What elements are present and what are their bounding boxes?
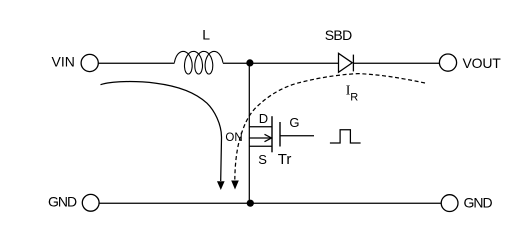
label VIN xyxy=(52,53,75,69)
svg-text:ON: ON xyxy=(225,132,242,144)
label ON xyxy=(225,132,242,144)
svg-text:GND: GND xyxy=(48,193,77,209)
wire SBD cathode to VOUT xyxy=(353,62,439,64)
label S (source pin) xyxy=(258,152,267,167)
svg-text:S: S xyxy=(258,152,267,167)
wire L to node A xyxy=(223,62,249,64)
svg-text:VIN: VIN xyxy=(52,53,75,69)
svg-text:G: G xyxy=(289,115,299,130)
label Tr xyxy=(278,151,292,168)
wire node A to SBD anode xyxy=(250,62,339,64)
bottom wire GND rail xyxy=(99,202,441,204)
transistor Tr (N-MOSFET) xyxy=(249,116,314,152)
terminal VIN xyxy=(81,54,98,71)
label D (drain pin) xyxy=(259,111,268,126)
gate pulse waveform xyxy=(330,130,361,143)
terminal GND right xyxy=(441,195,458,212)
label GND left xyxy=(48,193,77,209)
wire node A down through transistor to node B xyxy=(248,63,250,203)
svg-text:R: R xyxy=(350,92,358,104)
label SBD xyxy=(325,27,352,43)
diode SBD xyxy=(339,53,354,72)
label IR xyxy=(346,83,359,103)
current path IR (dashed, OFF period) with arrowhead xyxy=(231,74,425,190)
node A junction dot xyxy=(246,59,253,66)
node B junction dot xyxy=(247,200,254,207)
svg-text:Tr: Tr xyxy=(278,151,292,168)
svg-text:D: D xyxy=(259,111,268,126)
svg-text:VOUT: VOUT xyxy=(463,55,502,71)
terminal VOUT xyxy=(439,54,456,71)
wire VIN to L xyxy=(98,62,174,64)
svg-text:L: L xyxy=(202,27,210,43)
svg-text:SBD: SBD xyxy=(325,27,352,43)
current path ON (solid) with arrowhead xyxy=(101,82,225,190)
label GND right xyxy=(464,194,493,210)
label G (gate pin) xyxy=(289,115,299,130)
label VOUT xyxy=(463,55,502,71)
terminal GND left xyxy=(82,194,99,211)
label L xyxy=(202,27,210,43)
inductor L xyxy=(174,51,223,74)
svg-text:GND: GND xyxy=(464,194,493,210)
